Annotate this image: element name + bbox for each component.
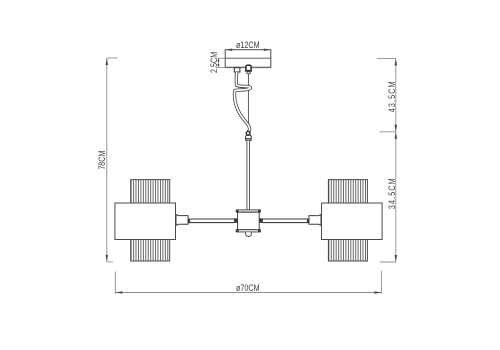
left shade band [115,203,176,240]
dimension 2.5CM [217,58,226,67]
cable knot [246,131,250,135]
suspension wire [247,74,249,132]
rod [246,141,249,210]
svg-text:34.5CM: 34.5CM [387,177,397,209]
hub body [238,212,260,229]
ferrule [246,135,252,140]
arm socket right [259,218,263,223]
power cable with loop [234,72,250,132]
strain relief connector right under canopy [245,65,252,74]
dimension d12CM arrows [226,49,271,52]
left shade socket [188,219,190,224]
right shade socket [307,219,309,224]
hub knob [246,232,252,236]
dimension 43.5CM [377,58,396,131]
right shade band [322,203,383,240]
hub top cap [236,210,261,213]
svg-text:2.5CM: 2.5CM [209,52,219,73]
svg-text:78CM: 78CM [97,150,107,169]
left arm [190,219,234,224]
right arm [263,219,308,224]
arm socket left [234,218,238,223]
svg-text:ø12CM: ø12CM [236,40,260,50]
svg-text:43.5CM: 43.5CM [387,80,397,112]
canopy ceiling plate [225,50,271,68]
left shade ribbed cylinder [131,180,170,261]
svg-text:ø70CM: ø70CM [236,283,260,293]
hub bottom cap [236,230,261,233]
dimension 78CM [107,58,118,262]
left shade connector [176,215,188,226]
dimension 34.5CM [380,132,396,262]
right shade connector [309,215,321,226]
hook connector left under canopy [234,68,240,72]
right shade ribbed cylinder [328,180,367,261]
dimension d70CM [115,271,381,294]
